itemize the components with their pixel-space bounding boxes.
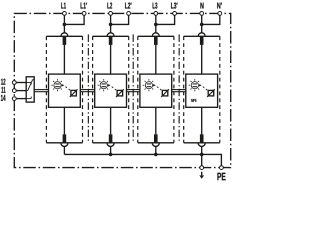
wire terminal 14 to contact box bbox=[16, 98, 26, 100]
spark gap F4: upper electrode bar bbox=[200, 36, 204, 45]
wire trigger box to lower electrode module 2 bbox=[110, 107, 112, 134]
spark gap F3: upper horn electrode (dome) bbox=[152, 33, 159, 36]
spark gap F1: upper horn electrode (dome) bbox=[61, 33, 68, 36]
actuation arrow module 2 bbox=[108, 84, 111, 86]
module separator dash-dot line 3 bbox=[178, 34, 180, 141]
wire trigger box to lower electrode module 3 bbox=[155, 107, 157, 134]
contact stub 12 (NC) bbox=[26, 82, 31, 84]
wire jumper L3′ to L3 bbox=[156, 15, 175, 24]
terminal 11 bbox=[12, 89, 16, 93]
terminal L2 bbox=[109, 12, 113, 16]
dashed actuation line module 4 bbox=[203, 87, 208, 91]
disconnector diagonal module 3 bbox=[161, 89, 169, 97]
spark gap F4: lower electrode bar bbox=[200, 134, 204, 143]
node junction L1 bbox=[63, 23, 67, 27]
spark gap F1: lower horn electrode (cup) bbox=[61, 143, 68, 147]
wire jumper L2′ to L2 bbox=[111, 15, 129, 24]
wire cup to PE bus module 3 bbox=[155, 146, 157, 154]
dashed actuation line module 1 bbox=[66, 87, 71, 91]
triggered spark gap symbol (circle with electrodes) module 4 bbox=[189, 79, 201, 91]
spark gap F2: upper electrode bar bbox=[109, 36, 113, 45]
spark gap F3: lower electrode bar bbox=[154, 134, 158, 143]
wire jumper N′ to N bbox=[202, 15, 220, 24]
mechanical link double line segment 2 bbox=[80, 89, 94, 91]
actuation arrow module 4 bbox=[199, 84, 202, 86]
disconnector square module 1 bbox=[71, 90, 77, 96]
label L2′ bbox=[125, 3, 131, 9]
label N′ bbox=[217, 3, 222, 9]
label L3 bbox=[153, 3, 158, 9]
compartment left dashed line module 3 bbox=[137, 36, 139, 142]
terminal PE bbox=[220, 166, 224, 170]
terminal 12 bbox=[12, 81, 16, 85]
dashed actuation line module 3 bbox=[157, 87, 162, 91]
trigger/monitoring box U4 bbox=[186, 74, 218, 107]
wire electrode to trigger box module 3 bbox=[155, 45, 157, 74]
wire trigger box to lower electrode module 1 bbox=[63, 107, 65, 134]
wire cup to PE bus module 1 bbox=[63, 146, 65, 154]
dashed actuation line module 2 bbox=[112, 87, 117, 91]
label L1 bbox=[61, 3, 66, 9]
trigger/monitoring box U1 bbox=[49, 74, 81, 107]
wire PE bus bbox=[64, 153, 201, 155]
wire cup to PE bus module 4 bbox=[201, 146, 203, 154]
disconnector diagonal module 2 bbox=[116, 89, 124, 97]
terminal L3 bbox=[154, 12, 158, 16]
spark gap F1: lower flank line bbox=[46, 142, 82, 144]
spark gap F1: upper flank line bbox=[46, 35, 82, 37]
wire bus to earthing terminal bbox=[201, 154, 203, 165]
triggered spark gap symbol (circle with electrodes) module 1 bbox=[51, 79, 63, 91]
wire bus to PE terminal bbox=[202, 154, 222, 165]
label 12 bbox=[1, 79, 5, 85]
spark gap F3: upper flank line bbox=[138, 35, 174, 37]
spark gap F2: lower flank line bbox=[93, 142, 129, 144]
compartment right dashed line module 2 bbox=[128, 36, 130, 142]
node PE bus junction bbox=[200, 153, 204, 157]
terminal N′ bbox=[218, 12, 222, 16]
mechanical link double line segment 4 bbox=[172, 89, 186, 91]
spark gap F1: lower electrode bar bbox=[63, 134, 67, 143]
spark gap F1: upper electrode bar bbox=[63, 36, 67, 45]
module separator dash-dot line 1 bbox=[87, 34, 89, 141]
node junction N bbox=[200, 23, 204, 27]
spark gap F4: upper horn electrode (dome) bbox=[198, 33, 205, 36]
label N bbox=[200, 3, 203, 9]
wire L2 terminal down to junction and spark gap bbox=[110, 15, 112, 33]
trigger/monitoring box U3 bbox=[140, 74, 172, 107]
earth arrow symbol bbox=[201, 172, 203, 176]
triggered spark gap symbol (circle with electrodes) module 3 bbox=[143, 79, 155, 91]
node junction L2 bbox=[109, 23, 113, 27]
label N/PE inside module 4 bbox=[191, 99, 196, 102]
node PE bus junction bbox=[109, 153, 113, 157]
terminal L2′ bbox=[127, 12, 131, 16]
node junction L3 bbox=[154, 23, 158, 27]
compartment left dashed line module 4 bbox=[183, 36, 185, 142]
terminal L3′ bbox=[173, 12, 177, 16]
compartment left dashed line module 1 bbox=[45, 36, 47, 142]
spark gap F2: lower electrode bar bbox=[109, 134, 113, 143]
contact stub 14 (NO) bbox=[26, 98, 31, 100]
label PE bbox=[217, 173, 225, 180]
label L1′ bbox=[81, 3, 87, 9]
terminal 14 bbox=[12, 97, 16, 101]
spark gap F2: upper flank line bbox=[93, 35, 129, 37]
compartment right dashed line module 1 bbox=[82, 36, 84, 142]
mechanical link double line segment 1 bbox=[34, 89, 48, 91]
wire L3 terminal down to junction and spark gap bbox=[155, 15, 157, 33]
label 11 bbox=[1, 87, 5, 93]
wire terminal 12 to contact box bbox=[16, 82, 26, 84]
wire electrode to trigger box module 2 bbox=[110, 45, 112, 74]
spark gap F3: lower horn electrode (cup) bbox=[152, 143, 159, 147]
node PE bus junction bbox=[154, 153, 158, 157]
actuation arrow module 1 bbox=[62, 84, 65, 86]
mechanical link double line segment 3 bbox=[127, 89, 140, 91]
spark gap F2: lower horn electrode (cup) bbox=[107, 143, 114, 147]
compartment right dashed line module 4 bbox=[219, 36, 221, 142]
triggered spark gap symbol (circle with electrodes) module 2 bbox=[98, 79, 110, 91]
trigger/monitoring box U2 bbox=[95, 74, 127, 107]
compartment left dashed line module 2 bbox=[92, 36, 94, 142]
spark gap F4: lower horn electrode (cup) bbox=[198, 143, 205, 147]
label L3′ bbox=[171, 3, 177, 9]
wire L1 terminal down to junction and spark gap bbox=[63, 15, 65, 33]
changeover contact box K1 bbox=[26, 77, 34, 102]
wire N terminal down to junction and spark gap bbox=[201, 15, 203, 33]
changeover switch arm 11 bbox=[26, 90, 28, 92]
wire electrode to trigger box module 4 bbox=[201, 45, 203, 74]
disconnector diagonal module 4 bbox=[207, 89, 215, 97]
terminal L1 bbox=[63, 12, 67, 16]
module separator dash-dot line 2 bbox=[132, 34, 134, 141]
spark gap F4: lower flank line bbox=[184, 142, 220, 144]
wire jumper L1′ to L1 bbox=[64, 15, 84, 24]
terminal L1′ bbox=[82, 12, 86, 16]
wire cup to PE bus module 2 bbox=[110, 146, 112, 154]
spark gap F3: upper electrode bar bbox=[154, 36, 158, 45]
terminal N bbox=[200, 12, 204, 16]
spark gap F3: lower flank line bbox=[138, 142, 174, 144]
spark gap F4: upper flank line bbox=[184, 35, 220, 37]
spark gap F2: upper horn electrode (dome) bbox=[107, 33, 114, 36]
label 14 bbox=[1, 95, 6, 101]
wire terminal 11 to contact box bbox=[16, 90, 26, 92]
label L2 bbox=[107, 3, 112, 9]
wire trigger box to lower electrode module 4 bbox=[201, 107, 203, 134]
disconnector square module 2 bbox=[117, 90, 123, 96]
enclosure border (dash-dot outline of arrester) bbox=[14, 13, 230, 167]
actuation arrow module 3 bbox=[153, 84, 156, 86]
terminal earth bbox=[200, 166, 204, 170]
disconnector square module 4 bbox=[208, 90, 214, 96]
compartment right dashed line module 3 bbox=[173, 36, 175, 142]
wire electrode to trigger box module 1 bbox=[63, 45, 65, 74]
disconnector diagonal module 1 bbox=[70, 89, 78, 97]
disconnector square module 3 bbox=[162, 90, 168, 96]
